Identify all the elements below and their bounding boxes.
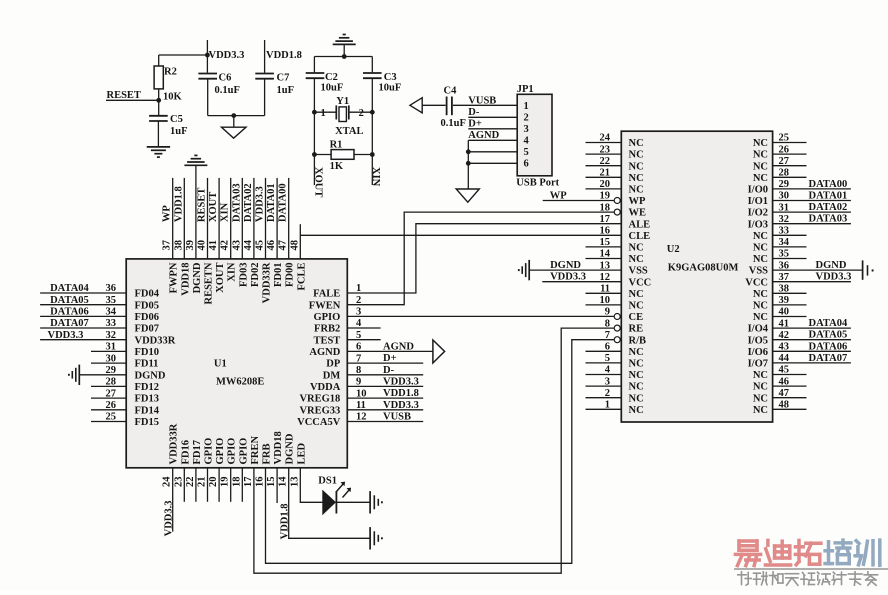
U2 pin 39 NC bbox=[753, 295, 807, 311]
svg-text:21: 21 bbox=[600, 168, 611, 179]
svg-text:FD11: FD11 bbox=[135, 359, 159, 370]
svg-text:DGND: DGND bbox=[285, 433, 296, 464]
svg-text:U2: U2 bbox=[667, 244, 680, 255]
svg-text:FD07: FD07 bbox=[135, 324, 160, 335]
svg-text:38: 38 bbox=[779, 284, 790, 295]
svg-text:FD02: FD02 bbox=[250, 263, 261, 288]
junction ground node bbox=[231, 113, 236, 118]
svg-text:4: 4 bbox=[524, 136, 530, 147]
svg-text:AGND: AGND bbox=[468, 130, 499, 141]
svg-text:47: 47 bbox=[779, 388, 790, 399]
U1 pin 12 VCCA5V net VUSB bbox=[297, 412, 423, 429]
svg-text:42: 42 bbox=[220, 240, 231, 251]
svg-text:RE: RE bbox=[629, 324, 644, 335]
svg-text:VDD33R: VDD33R bbox=[135, 335, 176, 346]
svg-text:I/O6: I/O6 bbox=[748, 347, 768, 358]
svg-text:20: 20 bbox=[208, 477, 219, 488]
U2 pin 38 NC bbox=[753, 284, 807, 300]
svg-text:2: 2 bbox=[356, 295, 361, 306]
U2 pin 4 NC bbox=[586, 365, 644, 381]
U2 pin 34 NC bbox=[753, 237, 807, 253]
svg-text:R2: R2 bbox=[164, 67, 177, 78]
svg-text:NC: NC bbox=[753, 138, 768, 149]
svg-text:FD14: FD14 bbox=[135, 405, 160, 416]
svg-text:28: 28 bbox=[779, 168, 790, 179]
net label RESET and wire bbox=[106, 90, 159, 101]
junction Y1 pin2 bbox=[370, 110, 375, 115]
svg-text:XIN: XIN bbox=[370, 167, 381, 187]
svg-text:DATA06: DATA06 bbox=[50, 307, 89, 318]
svg-text:VDD18: VDD18 bbox=[180, 263, 191, 296]
U2 pin 43 I/O6 net DATA06 bbox=[748, 341, 851, 358]
U2 pin 28 NC bbox=[753, 168, 807, 184]
wire C5 to ground bbox=[157, 121, 159, 147]
svg-text:48: 48 bbox=[779, 400, 790, 411]
svg-text:K9GAG08U0M: K9GAG08U0M bbox=[668, 263, 739, 274]
U2 pin 45 NC bbox=[753, 365, 807, 381]
svg-text:I/O7: I/O7 bbox=[748, 359, 768, 370]
U2 pin 9 CE bbox=[605, 307, 643, 323]
U2 pin 2 NC bbox=[586, 388, 644, 404]
svg-text:1K: 1K bbox=[330, 161, 344, 172]
capacitor C2 10uF bbox=[306, 72, 344, 94]
ground above crystal bbox=[333, 35, 356, 45]
svg-text:XTAL: XTAL bbox=[335, 126, 363, 137]
svg-text:18: 18 bbox=[600, 202, 611, 213]
svg-text:NC: NC bbox=[629, 289, 644, 300]
net label XOUT bbox=[312, 167, 323, 197]
svg-text:27: 27 bbox=[779, 156, 790, 167]
U2 pin 40 NC bbox=[753, 307, 807, 323]
svg-text:VDD33R: VDD33R bbox=[262, 262, 273, 303]
svg-text:41: 41 bbox=[208, 240, 219, 251]
LED DS1 diode bbox=[323, 491, 337, 514]
svg-text:6: 6 bbox=[605, 342, 610, 353]
svg-text:DATA04: DATA04 bbox=[50, 283, 89, 294]
svg-text:22: 22 bbox=[600, 156, 611, 167]
U1 pin 44 FD02 net DATA02 bbox=[243, 178, 261, 287]
U1 pin 7 DP net D+ bbox=[326, 353, 423, 370]
svg-text:7: 7 bbox=[605, 330, 610, 341]
svg-text:40: 40 bbox=[779, 307, 790, 318]
svg-text:46: 46 bbox=[779, 376, 790, 387]
svg-text:CLE: CLE bbox=[629, 231, 651, 242]
wire AGND down to ground bbox=[467, 140, 469, 188]
svg-text:C5: C5 bbox=[170, 114, 183, 125]
svg-text:NC: NC bbox=[629, 243, 644, 254]
U1 pin 32 VDD33R net VDD3.3 bbox=[40, 330, 176, 346]
svg-text:30: 30 bbox=[106, 353, 117, 364]
wire ground rail bbox=[208, 115, 265, 117]
junction VDD3.3 node bbox=[205, 53, 210, 58]
U1 pin 27 FD13 bbox=[91, 388, 159, 404]
svg-text:XIN: XIN bbox=[227, 262, 238, 282]
svg-text:USB Port: USB Port bbox=[516, 178, 559, 189]
svg-text:45: 45 bbox=[779, 365, 790, 376]
svg-text:D+: D+ bbox=[468, 119, 482, 130]
U1 pin 40 RESETN net RESET bbox=[197, 178, 215, 305]
svg-text:DATA01: DATA01 bbox=[266, 183, 277, 222]
svg-text:GPIO: GPIO bbox=[227, 438, 238, 465]
svg-text:NC: NC bbox=[753, 173, 768, 184]
svg-text:FD16: FD16 bbox=[180, 440, 191, 465]
svg-text:NC: NC bbox=[753, 370, 768, 381]
wire XOUT branch bbox=[313, 78, 315, 185]
svg-text:VDD3.3: VDD3.3 bbox=[48, 330, 84, 341]
svg-text:CE: CE bbox=[629, 312, 644, 323]
svg-text:FWPN: FWPN bbox=[169, 262, 180, 293]
svg-text:16: 16 bbox=[255, 477, 266, 488]
svg-text:RESET: RESET bbox=[197, 188, 208, 222]
svg-text:C7: C7 bbox=[277, 73, 290, 84]
svg-text:NC: NC bbox=[629, 359, 644, 370]
svg-text:7: 7 bbox=[356, 353, 361, 364]
svg-text:DATA06: DATA06 bbox=[809, 341, 848, 352]
svg-text:24: 24 bbox=[600, 133, 611, 144]
U1 pin 42 XIN net XIN bbox=[220, 178, 238, 282]
svg-text:NC: NC bbox=[753, 405, 768, 416]
svg-text:GPIO: GPIO bbox=[313, 312, 340, 323]
svg-text:FD00: FD00 bbox=[285, 263, 296, 288]
svg-text:VSS: VSS bbox=[629, 266, 648, 277]
svg-text:XOUT: XOUT bbox=[215, 263, 226, 293]
svg-text:Y1: Y1 bbox=[336, 96, 349, 107]
svg-text:C4: C4 bbox=[444, 86, 458, 97]
svg-text:10: 10 bbox=[600, 295, 611, 306]
U1 pin 4 FRB2 bbox=[314, 318, 381, 334]
svg-text:VREG18: VREG18 bbox=[299, 394, 340, 405]
svg-text:FD03: FD03 bbox=[238, 263, 249, 288]
svg-text:VDD3.3: VDD3.3 bbox=[255, 186, 266, 222]
svg-text:26: 26 bbox=[106, 400, 117, 411]
svg-text:0.1uF: 0.1uF bbox=[441, 118, 466, 129]
svg-text:FRB2: FRB2 bbox=[314, 324, 340, 335]
U2 pin 31 I/O2 net DATA02 bbox=[748, 202, 851, 219]
svg-text:17: 17 bbox=[600, 214, 611, 225]
ground under C5 bbox=[147, 147, 170, 157]
svg-text:26: 26 bbox=[779, 144, 790, 155]
U2 pin 14 NC bbox=[586, 249, 644, 265]
svg-text:NC: NC bbox=[629, 301, 644, 312]
svg-text:37: 37 bbox=[779, 272, 790, 283]
svg-text:3: 3 bbox=[605, 376, 610, 387]
svg-text:FD13: FD13 bbox=[135, 394, 160, 405]
U1 pin 31 FD10 bbox=[91, 342, 159, 358]
svg-text:DGND: DGND bbox=[192, 262, 203, 293]
wire XIN branch bbox=[371, 78, 373, 185]
ground for U1 DGND pin14 bbox=[370, 527, 382, 549]
svg-text:NC: NC bbox=[753, 289, 768, 300]
U1 pin 5 TEST bbox=[313, 330, 380, 346]
svg-text:NC: NC bbox=[629, 138, 644, 149]
U1 pin 45 VDD33R net VDD3.3 bbox=[255, 178, 273, 303]
svg-text:NC: NC bbox=[629, 185, 644, 196]
U2 pin 22 NC bbox=[586, 156, 644, 172]
svg-text:NC: NC bbox=[753, 161, 768, 172]
svg-text:13: 13 bbox=[600, 260, 611, 271]
wire to C5 bbox=[158, 100, 160, 115]
svg-text:15: 15 bbox=[600, 237, 611, 248]
junction Y1 pin1 bbox=[312, 110, 317, 115]
svg-text:1: 1 bbox=[356, 283, 361, 294]
svg-text:VDD3.3: VDD3.3 bbox=[209, 50, 245, 61]
svg-text:DATA03: DATA03 bbox=[231, 183, 242, 222]
resistor R2 10K bbox=[154, 66, 182, 102]
U1 pin 47 FD00 net DATA00 bbox=[278, 178, 296, 287]
U2 pin 44 I/O7 net DATA07 bbox=[748, 353, 851, 370]
svg-text:0.1uF: 0.1uF bbox=[215, 85, 240, 96]
svg-text:38: 38 bbox=[173, 240, 184, 251]
svg-text:11: 11 bbox=[600, 284, 610, 295]
junction pin5 tie bbox=[466, 149, 471, 154]
U1 pin 36 FD04 net DATA04 bbox=[40, 283, 160, 299]
svg-text:AGND: AGND bbox=[309, 347, 340, 358]
wire to C2 bbox=[313, 57, 315, 73]
svg-text:33: 33 bbox=[106, 318, 117, 329]
U1 pin 43 FD03 net DATA03 bbox=[231, 178, 249, 287]
svg-text:R1: R1 bbox=[330, 140, 343, 151]
svg-text:DATA00: DATA00 bbox=[809, 179, 848, 190]
wire AGND to JP1 pin4 bbox=[468, 130, 517, 141]
svg-text:1uF: 1uF bbox=[277, 85, 295, 96]
svg-text:VUSB: VUSB bbox=[383, 412, 411, 423]
svg-text:1uF: 1uF bbox=[170, 126, 188, 137]
svg-text:35: 35 bbox=[779, 249, 790, 260]
svg-text:19: 19 bbox=[220, 477, 231, 488]
U1 pin 6 AGND net AGND bbox=[309, 340, 444, 363]
U2 pin 12 VCC bbox=[542, 272, 651, 289]
flash U2 K9GAG08U0M body bbox=[621, 131, 772, 422]
U2 pin 10 NC bbox=[586, 295, 644, 311]
svg-text:10uF: 10uF bbox=[379, 83, 402, 94]
U2 pin 17 ALE bbox=[600, 214, 651, 230]
svg-text:DATA04: DATA04 bbox=[809, 318, 848, 329]
svg-text:GPIO: GPIO bbox=[238, 438, 249, 465]
svg-text:15: 15 bbox=[266, 477, 277, 488]
wire arrow to C4 bbox=[422, 104, 445, 106]
svg-text:VDD3.3: VDD3.3 bbox=[383, 376, 419, 387]
svg-text:NC: NC bbox=[629, 161, 644, 172]
U1 pin 21 GPIO bbox=[197, 438, 215, 502]
svg-text:33: 33 bbox=[779, 226, 790, 237]
svg-text:NC: NC bbox=[629, 150, 644, 161]
svg-text:NC: NC bbox=[629, 254, 644, 265]
svg-text:14: 14 bbox=[600, 249, 611, 260]
svg-text:48: 48 bbox=[289, 240, 300, 251]
svg-text:VDD1.8: VDD1.8 bbox=[383, 388, 419, 399]
U1 pin 37 FWPN net WP bbox=[162, 178, 180, 294]
svg-text:9: 9 bbox=[356, 377, 361, 388]
wire D- to JP1 pin2 bbox=[468, 107, 517, 118]
svg-text:5: 5 bbox=[356, 330, 361, 341]
svg-text:10uF: 10uF bbox=[321, 83, 344, 94]
U1 pin 23 FD16 bbox=[173, 440, 191, 502]
svg-text:8: 8 bbox=[605, 318, 610, 329]
svg-text:NC: NC bbox=[629, 173, 644, 184]
U2 pin 41 I/O4 net DATA04 bbox=[748, 318, 851, 335]
capacitor C4 0.1uF bbox=[441, 86, 466, 130]
connector JP1 USB Port bbox=[516, 84, 559, 189]
power VDD1.8 bbox=[265, 40, 302, 73]
wire JP1 pin6 bbox=[468, 162, 517, 164]
U1 pin 39 DGND bbox=[184, 155, 207, 293]
svg-text:DGND: DGND bbox=[550, 260, 581, 271]
U1 pin 15 VDD18 net VDD1.8 bbox=[266, 431, 290, 539]
svg-text:RESET: RESET bbox=[107, 90, 141, 101]
svg-text:10K: 10K bbox=[163, 91, 183, 102]
svg-text:DATA01: DATA01 bbox=[809, 191, 848, 202]
svg-text:WP: WP bbox=[162, 205, 173, 223]
U2 pin 18 WE bbox=[600, 202, 647, 218]
wire LED cathode to ground bbox=[336, 501, 369, 503]
svg-text:VDD3.3: VDD3.3 bbox=[383, 400, 419, 411]
U1 pin 20 GPIO bbox=[208, 438, 226, 502]
ground triangle under C6 C7 bbox=[222, 116, 247, 139]
U1 pin 48 FCLE bbox=[289, 224, 621, 290]
svg-text:19: 19 bbox=[600, 191, 611, 202]
svg-text:32: 32 bbox=[106, 330, 117, 341]
svg-text:NC: NC bbox=[753, 312, 768, 323]
svg-text:DATA02: DATA02 bbox=[243, 183, 254, 222]
svg-text:20: 20 bbox=[600, 179, 611, 190]
U1 pin 24 VDD33R net VDD3.3 bbox=[162, 423, 180, 536]
svg-text:GPIO: GPIO bbox=[204, 438, 215, 465]
svg-text:14: 14 bbox=[278, 476, 289, 487]
svg-text:VUSB: VUSB bbox=[468, 95, 496, 106]
svg-text:3: 3 bbox=[356, 307, 361, 318]
svg-text:1: 1 bbox=[321, 108, 326, 119]
U2 pin 8 RE bbox=[605, 318, 643, 334]
svg-text:FRB: FRB bbox=[262, 444, 273, 465]
junction R1 right bbox=[370, 152, 375, 157]
svg-text:I/O4: I/O4 bbox=[748, 324, 769, 335]
svg-text:XIN: XIN bbox=[220, 202, 231, 222]
U2 pin 25 NC bbox=[753, 133, 807, 149]
junction R1 left bbox=[312, 152, 317, 157]
svg-text:VDD1.8: VDD1.8 bbox=[266, 50, 302, 61]
power VDD3.3 bbox=[207, 40, 244, 73]
wire to C3 bbox=[371, 57, 373, 73]
svg-text:XOUT: XOUT bbox=[312, 167, 323, 197]
wire crystal top rail bbox=[314, 56, 372, 58]
svg-text:1: 1 bbox=[605, 400, 610, 411]
svg-text:43: 43 bbox=[231, 240, 242, 251]
net label XIN bbox=[370, 167, 381, 187]
svg-text:XOUT: XOUT bbox=[208, 192, 219, 222]
svg-text:25: 25 bbox=[106, 412, 117, 423]
U2 pin 48 NC bbox=[753, 400, 807, 416]
svg-text:NC: NC bbox=[753, 150, 768, 161]
ground right of LED bbox=[370, 491, 382, 513]
svg-text:39: 39 bbox=[779, 295, 790, 306]
U2 pin 29 I/O0 net DATA00 bbox=[748, 179, 851, 196]
U1 pin 9 VDDA net VDD3.3 bbox=[310, 376, 423, 393]
capacitor C5 1uF bbox=[149, 114, 187, 137]
U2 pin 19 WP bbox=[543, 190, 646, 207]
svg-text:DATA05: DATA05 bbox=[809, 330, 848, 341]
U1 pin 10 VREG18 net VDD1.8 bbox=[299, 388, 423, 405]
capacitor C7 1uF bbox=[255, 73, 294, 97]
svg-text:FD04: FD04 bbox=[135, 289, 160, 300]
svg-text:NC: NC bbox=[629, 393, 644, 404]
U2 pin 11 NC bbox=[586, 284, 644, 300]
svg-text:WP: WP bbox=[550, 190, 568, 201]
wire JP1 pin5 bbox=[468, 151, 517, 153]
U2 pin 3 NC bbox=[586, 376, 644, 392]
svg-text:FREN: FREN bbox=[250, 436, 261, 465]
svg-text:D-: D- bbox=[383, 365, 395, 376]
U1 pin 22 FD17 bbox=[185, 440, 203, 502]
U2 pin 24 NC bbox=[586, 133, 644, 149]
svg-text:D+: D+ bbox=[383, 353, 397, 364]
U1 pin 11 VREG33 net VDD3.3 bbox=[299, 400, 423, 417]
svg-text:DATA05: DATA05 bbox=[50, 295, 89, 306]
U1 pin 41 XOUT net XOUT bbox=[208, 178, 226, 293]
svg-text:2: 2 bbox=[605, 388, 610, 399]
svg-text:FD12: FD12 bbox=[135, 382, 160, 393]
svg-text:41: 41 bbox=[779, 318, 790, 329]
U2 pin 37 VCC net VDD3.3 bbox=[745, 272, 851, 289]
svg-text:NC: NC bbox=[753, 231, 768, 242]
svg-text:29: 29 bbox=[779, 179, 790, 190]
svg-text:I/O0: I/O0 bbox=[748, 185, 768, 196]
svg-text:46: 46 bbox=[266, 240, 277, 251]
junction RESET node bbox=[156, 98, 161, 103]
svg-text:FD01: FD01 bbox=[273, 263, 284, 288]
svg-text:DP: DP bbox=[326, 359, 341, 370]
svg-text:C6: C6 bbox=[219, 73, 232, 84]
U1 pin 38 VDD18 net VDD1.8 bbox=[173, 178, 191, 296]
svg-text:1: 1 bbox=[524, 101, 529, 112]
svg-text:40: 40 bbox=[197, 240, 208, 251]
svg-text:31: 31 bbox=[106, 342, 117, 353]
U2 pin 26 NC bbox=[753, 144, 807, 160]
svg-text:12: 12 bbox=[356, 412, 367, 423]
svg-text:23: 23 bbox=[173, 477, 184, 488]
U2 pin 36 VSS net DGND bbox=[749, 260, 862, 277]
wire R2 top bbox=[158, 55, 160, 66]
svg-text:MW6208E: MW6208E bbox=[216, 377, 264, 388]
svg-text:35: 35 bbox=[106, 295, 117, 306]
svg-text:17: 17 bbox=[243, 477, 254, 488]
svg-text:DM: DM bbox=[323, 370, 341, 381]
svg-text:13: 13 bbox=[289, 477, 300, 488]
svg-text:VCC: VCC bbox=[629, 277, 652, 288]
svg-text:RESETN: RESETN bbox=[204, 262, 215, 304]
wire VUSB to JP1 pin1 bbox=[453, 95, 517, 106]
U1 pin 17 FREN bbox=[243, 328, 614, 573]
svg-text:8: 8 bbox=[356, 365, 361, 376]
svg-text:28: 28 bbox=[106, 377, 117, 388]
svg-text:I/O2: I/O2 bbox=[748, 208, 768, 219]
U2 pin 21 NC bbox=[586, 168, 644, 184]
U2 pin 20 NC bbox=[586, 179, 644, 195]
U2 pin 23 NC bbox=[586, 144, 644, 160]
U1 pin 35 FD05 net DATA05 bbox=[40, 295, 159, 311]
svg-text:12: 12 bbox=[600, 272, 611, 283]
svg-text:VDD1.8: VDD1.8 bbox=[173, 186, 184, 222]
wire ground stub bbox=[343, 45, 345, 57]
U2 pin 42 I/O5 net DATA05 bbox=[748, 330, 851, 347]
svg-text:FD15: FD15 bbox=[135, 417, 160, 428]
capacitor C3 10uF bbox=[363, 72, 401, 94]
svg-text:NC: NC bbox=[753, 382, 768, 393]
U2 pin 46 NC bbox=[753, 376, 807, 392]
svg-text:VSS: VSS bbox=[749, 266, 768, 277]
svg-text:5: 5 bbox=[605, 353, 610, 364]
svg-text:R/B: R/B bbox=[629, 335, 647, 346]
svg-text:5: 5 bbox=[524, 147, 529, 158]
